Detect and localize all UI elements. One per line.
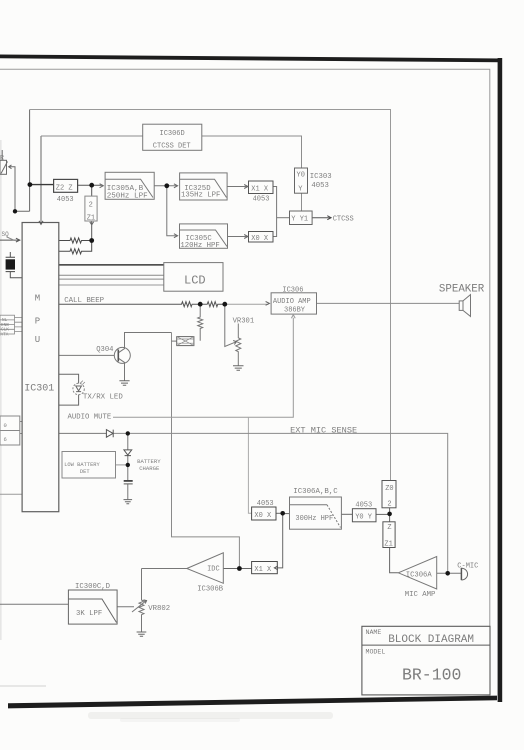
svg-text:386BY: 386BY <box>284 307 306 315</box>
svg-text:CTCSS: CTCSS <box>333 216 354 224</box>
svg-text:6: 6 <box>4 436 7 443</box>
svg-text:Y0: Y0 <box>297 172 305 180</box>
svg-text:BLOCK DIAGRAM: BLOCK DIAGRAM <box>388 634 474 646</box>
svg-text:300Hz HPF: 300Hz HPF <box>295 515 333 523</box>
svg-text:ATA: ATA <box>1 332 9 337</box>
svg-text:BR-100: BR-100 <box>402 666 461 685</box>
svg-text:Z0: Z0 <box>385 485 393 493</box>
svg-text:4053: 4053 <box>257 500 274 508</box>
svg-text:SQ: SQ <box>2 231 10 238</box>
svg-text:LOW BATTERY: LOW BATTERY <box>64 462 100 468</box>
svg-text:3K LPF: 3K LPF <box>76 610 102 618</box>
svg-text:VR802: VR802 <box>148 605 170 613</box>
svg-text:CHARGE: CHARGE <box>139 465 160 472</box>
svg-text:Q304: Q304 <box>96 346 113 354</box>
svg-text:Z2 Z: Z2 Z <box>56 185 73 193</box>
svg-text:IC306D: IC306D <box>160 130 185 138</box>
svg-text:X1 X: X1 X <box>254 566 272 574</box>
svg-text:R: R <box>0 154 4 161</box>
svg-text:TX/RX LED: TX/RX LED <box>83 394 123 402</box>
svg-text:DET: DET <box>80 469 90 475</box>
svg-text:Y Y1: Y Y1 <box>291 215 308 223</box>
svg-text:4053: 4053 <box>355 501 372 509</box>
svg-text:IDC: IDC <box>207 566 220 574</box>
svg-text:AUDIO AMP: AUDIO AMP <box>273 298 311 306</box>
svg-text:BATTERY: BATTERY <box>137 458 161 465</box>
svg-text:CTCSS DET: CTCSS DET <box>153 142 191 150</box>
svg-text:135Hz LPF: 135Hz LPF <box>181 191 220 199</box>
svg-text:4053: 4053 <box>253 195 270 203</box>
svg-text:P: P <box>35 316 40 326</box>
svg-text:Z: Z <box>387 524 391 532</box>
svg-text:IC306: IC306 <box>282 287 303 295</box>
svg-text:M: M <box>35 293 40 303</box>
svg-text:CALL BEEP: CALL BEEP <box>64 297 104 305</box>
svg-text:Z1: Z1 <box>384 540 392 548</box>
svg-text:120Hz HPF: 120Hz HPF <box>180 242 219 250</box>
svg-text:X1 X: X1 X <box>251 185 269 193</box>
svg-text:MIC AMP: MIC AMP <box>405 591 436 599</box>
svg-text:VR301: VR301 <box>233 317 255 325</box>
svg-text:IC300C,D: IC300C,D <box>75 583 111 591</box>
svg-text:IC301: IC301 <box>24 383 54 394</box>
svg-text:AUDIO MUTE: AUDIO MUTE <box>68 414 112 422</box>
svg-text:U: U <box>35 335 40 345</box>
svg-text:SPEAKER: SPEAKER <box>439 284 485 296</box>
svg-text:IC306A: IC306A <box>406 571 433 579</box>
svg-text:0: 0 <box>4 422 7 429</box>
svg-text:4053: 4053 <box>57 196 74 204</box>
svg-text:EXT MIC SENSE: EXT MIC SENSE <box>290 425 357 435</box>
svg-text:C-MIC: C-MIC <box>457 562 478 570</box>
svg-text:4053: 4053 <box>311 182 329 190</box>
svg-text:LCD: LCD <box>184 273 206 287</box>
svg-text:250Hz LPF: 250Hz LPF <box>107 192 148 200</box>
svg-text:MODEL: MODEL <box>366 649 386 656</box>
svg-text:NAME: NAME <box>366 629 382 636</box>
svg-text:Y0 Y: Y0 Y <box>355 513 373 521</box>
svg-text:IC303: IC303 <box>310 173 332 181</box>
svg-text:X0 X: X0 X <box>254 512 272 520</box>
svg-text:IC306B: IC306B <box>197 586 224 594</box>
svg-text:2: 2 <box>387 500 391 508</box>
svg-text:Z1: Z1 <box>87 215 95 223</box>
svg-text:X0 X: X0 X <box>251 235 269 243</box>
svg-text:IC306A,B,C: IC306A,B,C <box>293 488 338 496</box>
svg-text:2: 2 <box>89 202 93 210</box>
